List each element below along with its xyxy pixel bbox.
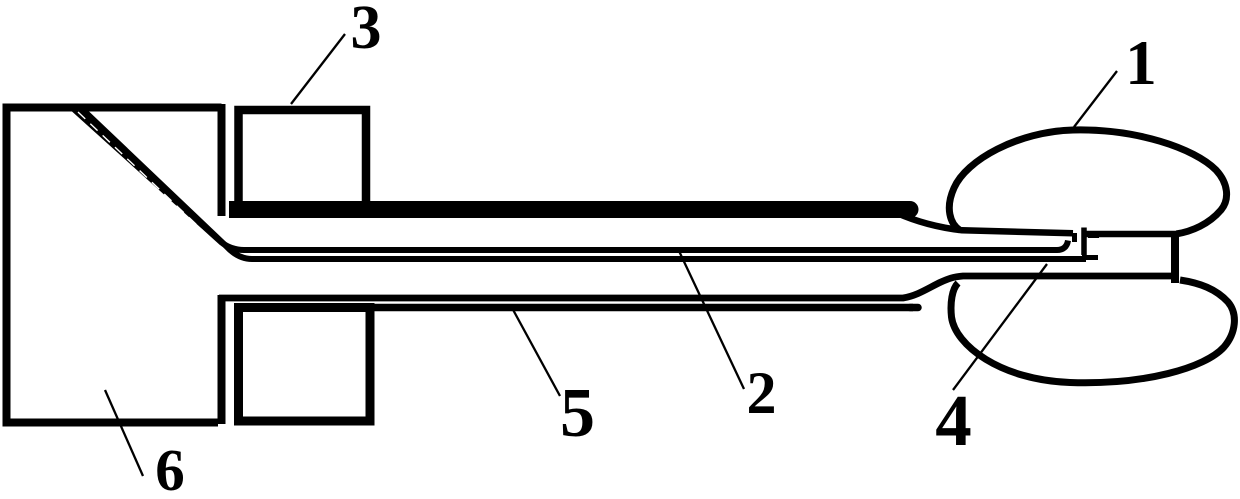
clamp block 3 (top) bbox=[239, 110, 367, 207]
svg-text:3: 3 bbox=[351, 0, 382, 62]
clamp block (bottom) bbox=[239, 308, 371, 422]
outer tube bottom wall (inner line) bbox=[239, 304, 914, 312]
svg-text:1: 1 bbox=[1125, 28, 1157, 98]
leader line 1 bbox=[1074, 71, 1117, 127]
svg-text:4: 4 bbox=[935, 380, 972, 461]
tube tip divider bar bbox=[1081, 228, 1087, 256]
outer tube bottom wall (outer line), joins neck bottom bbox=[219, 276, 1175, 298]
outer tube top wall (thick band) bbox=[229, 201, 905, 218]
neck right vertical bbox=[1171, 231, 1179, 283]
divider foot bbox=[1082, 255, 1098, 260]
inner capillary tube 2: bottom wall with inlet diagonal bbox=[80, 107, 1086, 259]
svg-text:2: 2 bbox=[747, 360, 777, 426]
balloon 4 (bottom lobe) outline bbox=[951, 280, 1234, 383]
housing box 6 bbox=[7, 108, 222, 423]
outer tube top wall peel-off curve into balloon bbox=[897, 213, 1073, 233]
leader line 2 bbox=[679, 251, 744, 389]
svg-text:5: 5 bbox=[560, 375, 595, 452]
neck top line bbox=[1086, 231, 1175, 238]
balloon 1 bottom edge end hook bbox=[1072, 233, 1077, 242]
neck top line start thickening bbox=[1088, 233, 1099, 238]
svg-text:6: 6 bbox=[155, 437, 185, 499]
leader line 5 bbox=[511, 306, 560, 396]
balloon 1 (top lobe) outline bbox=[949, 130, 1226, 234]
white core of inlet diagonal bbox=[78, 112, 220, 247]
inner capillary tube 2: top wall with inlet diagonal bbox=[72, 107, 1069, 250]
leader line 3 bbox=[291, 34, 345, 104]
housing box 6 right edge lower segment bbox=[218, 295, 226, 424]
leader line 6 bbox=[105, 390, 143, 476]
housing box 6 right edge upper segment bbox=[218, 104, 226, 216]
leader line 4 bbox=[953, 264, 1047, 390]
